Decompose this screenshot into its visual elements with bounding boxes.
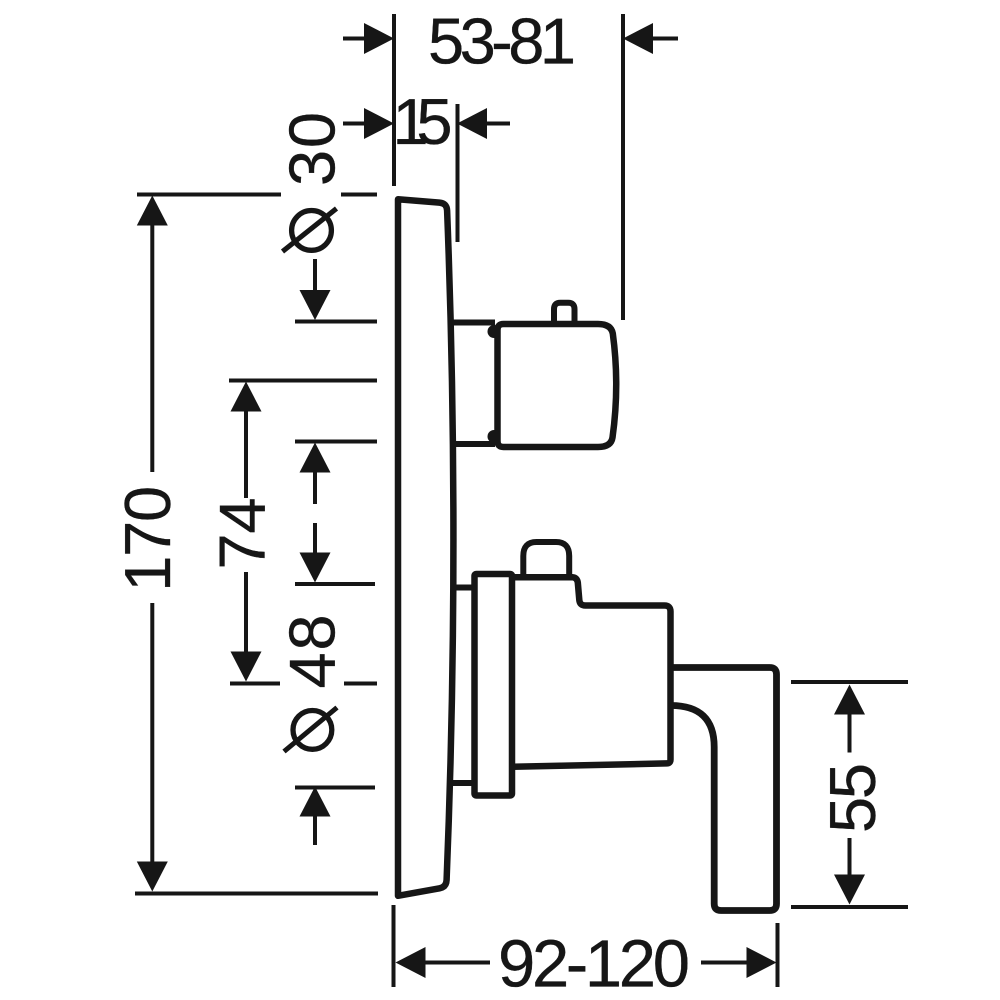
arrow 55 up (834, 685, 865, 715)
dimension line 74 upper (244, 410, 248, 498)
diameter symbol for 30: slash (283, 209, 337, 252)
arrow 92-120 right (747, 947, 777, 978)
extension line dia30 top (295, 320, 377, 324)
extension line 53-81 right (621, 14, 625, 320)
svg-text:170: 170 (111, 486, 184, 592)
lower sleeve stem bottom edge (451, 780, 473, 786)
arrow 170 top (137, 196, 168, 226)
svg-text:48: 48 (276, 615, 349, 689)
arrow dia48 up (300, 787, 331, 817)
arrow dia48 down (300, 553, 331, 583)
thermostat handle body (498, 324, 617, 447)
arrow 74 bottom (231, 652, 262, 682)
dimension line 55 upper (848, 713, 852, 753)
dimension line dia48 lower tail (313, 815, 317, 845)
extension line left (53-81 / 15) (392, 14, 396, 186)
extension line 92-120 right (776, 923, 780, 987)
extension line dia48 top (295, 582, 375, 586)
extension line 74 bottom (230, 682, 377, 686)
arrow dia30 down (300, 290, 331, 320)
dimension line dia48 upper tail (313, 523, 317, 554)
dimension tail 53-81 right (651, 37, 678, 41)
thermostat handle grip nub (554, 303, 575, 322)
arrow dia30 up (300, 443, 331, 473)
dimension line 170 lower (150, 603, 154, 863)
svg-text:53-81: 53-81 (428, 5, 576, 78)
extension line 170 bottom (135, 892, 378, 896)
arrow 15 left (364, 108, 394, 139)
arrow 170 bottom (137, 862, 168, 892)
arrow 53-81 right (623, 23, 653, 54)
extension line 55 bottom (791, 905, 908, 909)
arrow 15 right (457, 108, 487, 139)
dimension line 170 upper (150, 224, 154, 472)
valve body outline (511, 577, 671, 767)
dimension line dia30 lower tail (313, 471, 317, 504)
lower sleeve stem top edge (451, 585, 473, 591)
handle clip tab top (488, 325, 501, 338)
diameter symbol for 30: circle (292, 211, 332, 251)
extension line 74 top (229, 379, 377, 383)
arrow 55 down (834, 875, 865, 905)
arrow 92-120 left (396, 947, 426, 978)
valve flange plate (475, 574, 513, 796)
extension line dia30 bottom (295, 440, 377, 444)
svg-text:55: 55 (816, 763, 889, 833)
dimension line 55 lower (848, 838, 852, 876)
dimension line dia30 upper tail (313, 259, 317, 292)
svg-text:15: 15 (393, 85, 453, 158)
handle clip tab bottom (488, 430, 501, 443)
upper sleeve stem top edge (451, 320, 495, 326)
diameter symbol for 48: slash (284, 708, 337, 752)
extension line 15 right (456, 104, 460, 242)
extension line dia48 bottom (295, 786, 375, 790)
arrow 74 top (231, 382, 262, 412)
upper sleeve stem bottom edge (451, 441, 495, 447)
dimension line 92-120 left segment (424, 961, 490, 965)
wall plate (escutcheon) (398, 199, 453, 896)
extension line 55 top (791, 680, 908, 684)
svg-text:92-120: 92-120 (498, 927, 690, 1000)
arrow 53-81 left (364, 23, 394, 54)
dimension tail 53-81 left (343, 37, 366, 41)
dimension line 92-120 right segment (701, 961, 748, 965)
extension line 170 top (137, 193, 377, 197)
dimension tail 15 left (343, 122, 366, 126)
dimension tail 15 right (485, 122, 510, 126)
dimension line 74 lower (244, 572, 248, 653)
lever handle (671, 668, 777, 911)
valve dome cap (523, 542, 569, 577)
diameter symbol for 48: circle (293, 711, 332, 750)
svg-text:30: 30 (276, 112, 349, 186)
svg-text:74: 74 (206, 498, 279, 570)
extension line 92-120 left (392, 905, 396, 987)
